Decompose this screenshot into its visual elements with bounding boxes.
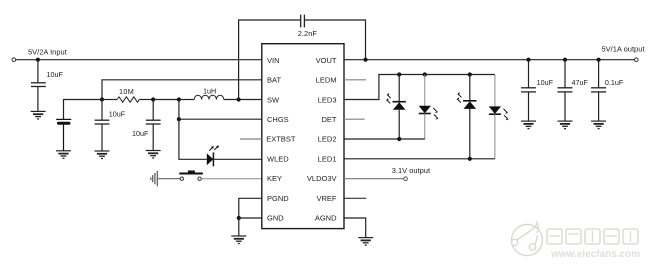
- wire DET stub: [344, 118, 365, 120]
- svg-text:CHGS: CHGS: [267, 115, 289, 124]
- wire BAT: [102, 80, 262, 100]
- svg-text:VLDO3V: VLDO3V: [307, 174, 337, 183]
- LED D3 (down): [419, 75, 439, 140]
- svg-text:VREF: VREF: [316, 194, 336, 203]
- wire EXTBST stub: [240, 138, 262, 140]
- node output cap 2: [563, 58, 567, 62]
- wire CHGS: [179, 118, 262, 120]
- svg-text:3.1V output: 3.1V output: [392, 166, 431, 175]
- watermark title: [547, 229, 638, 244]
- wire AGND: [344, 218, 366, 238]
- svg-text:10M: 10M: [119, 87, 134, 96]
- node: [468, 157, 472, 161]
- ground: [56, 151, 71, 159]
- wire GND: [239, 217, 262, 219]
- ground: [31, 111, 46, 119]
- svg-text:EXTBST: EXTBST: [266, 135, 296, 144]
- LED D2 (up): [386, 75, 406, 140]
- node bootstrap/VOUT: [363, 58, 367, 62]
- svg-text:SW: SW: [267, 95, 280, 104]
- capacitor C7 0.1uF: [591, 60, 606, 121]
- resistor R1 10M: [117, 97, 139, 102]
- svg-text:10uF: 10uF: [537, 78, 554, 87]
- node: [177, 97, 181, 101]
- wire WLED branch: [179, 119, 207, 159]
- svg-text:10uF: 10uF: [47, 70, 64, 79]
- wire KEY: [201, 178, 261, 180]
- output terminal: [635, 58, 639, 62]
- wire LED3: [344, 75, 495, 100]
- switch S1 (push button): [179, 171, 203, 181]
- LED D4 (up): [456, 75, 476, 159]
- chassis ground (key return): [151, 171, 158, 186]
- node LED rail a: [397, 72, 401, 76]
- svg-text:LED3: LED3: [318, 95, 337, 104]
- svg-text:VOUT: VOUT: [316, 56, 337, 65]
- watermark logo: [511, 221, 542, 256]
- node LED rail b: [423, 72, 427, 76]
- node BAT/SW junction: [100, 97, 104, 101]
- node output cap 1: [526, 58, 530, 62]
- node PGND/GND: [237, 216, 241, 220]
- ground: [146, 151, 161, 159]
- wire: [102, 99, 117, 101]
- wire VREF stub: [344, 197, 366, 199]
- svg-text:VIN: VIN: [267, 56, 280, 65]
- svg-text:2.2nF: 2.2nF: [298, 29, 318, 38]
- wire to ground: [238, 218, 240, 236]
- svg-text:1uH: 1uH: [203, 86, 216, 95]
- node input junction: [36, 58, 40, 62]
- svg-text:LED2: LED2: [318, 135, 337, 144]
- wire CHGS branch: [178, 100, 180, 120]
- ground: [231, 236, 246, 244]
- capacitor C6 47uF: [558, 60, 573, 121]
- 3.1V output terminal: [404, 177, 408, 181]
- svg-text:5V/1A output: 5V/1A output: [602, 44, 646, 53]
- capacitor C4 2.2nF (bootstrap): [239, 15, 366, 100]
- wire VOUT rail: [344, 59, 635, 61]
- svg-text:DET: DET: [322, 115, 337, 124]
- inductor L1 1uH: [194, 95, 224, 99]
- wire: [153, 99, 179, 101]
- svg-text:LED1: LED1: [318, 154, 337, 163]
- ground: [558, 121, 573, 129]
- capacitor C5 10uF: [521, 60, 536, 121]
- wire input rail: [16, 59, 262, 61]
- wire LEDM stub: [344, 79, 366, 81]
- capacitor C3 10uF: [146, 100, 161, 151]
- wire LED2: [344, 138, 425, 140]
- wire: [179, 99, 194, 101]
- input terminal: [12, 58, 16, 62]
- node: [151, 97, 155, 101]
- IC U1: [262, 44, 344, 229]
- wire: [139, 99, 153, 101]
- LED D1 WLED: [207, 145, 262, 166]
- wire LED1: [344, 158, 495, 160]
- svg-text:WLED: WLED: [267, 154, 289, 163]
- ground: [521, 121, 536, 129]
- svg-text:5V/2A Input: 5V/2A Input: [28, 48, 68, 57]
- ground: [358, 238, 373, 246]
- node SW bootstrap junction: [237, 97, 241, 101]
- ground: [95, 151, 110, 159]
- battery BT1: [56, 119, 71, 150]
- node LED rail c: [468, 72, 472, 76]
- svg-text:AGND: AGND: [315, 214, 337, 223]
- svg-text:10uF: 10uF: [132, 129, 149, 138]
- svg-text:BAT: BAT: [267, 76, 281, 85]
- node: [397, 137, 401, 141]
- svg-text:LEDM: LEDM: [316, 76, 337, 85]
- ground: [591, 121, 606, 129]
- wire key left: [157, 178, 180, 180]
- node: [177, 117, 181, 121]
- capacitor C2 10uF: [95, 100, 110, 152]
- wire battery branch: [64, 100, 103, 120]
- capacitor C1 10uF: [31, 60, 46, 112]
- LED D5 (down): [489, 75, 509, 159]
- svg-text:0.1uF: 0.1uF: [605, 78, 624, 87]
- svg-text:GND: GND: [267, 214, 284, 223]
- wire: [224, 99, 262, 101]
- node output cap 3: [597, 58, 601, 62]
- svg-text:47uF: 47uF: [572, 78, 589, 87]
- svg-text:PGND: PGND: [267, 194, 289, 203]
- svg-text:10uF: 10uF: [109, 109, 126, 118]
- wire VLDO3V: [344, 178, 404, 180]
- svg-text:KEY: KEY: [267, 174, 282, 183]
- svg-text:www.elecfans.com: www.elecfans.com: [550, 249, 640, 260]
- wire PGND: [239, 198, 262, 218]
